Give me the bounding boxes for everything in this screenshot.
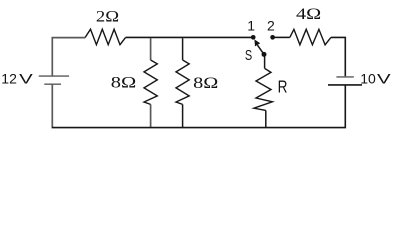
svg-text:V: V	[377, 71, 392, 87]
svg-text:4Ω: 4Ω	[296, 6, 321, 23]
svg-text:2: 2	[267, 18, 275, 34]
svg-text:12: 12	[1, 71, 17, 87]
svg-text:1: 1	[247, 18, 255, 34]
svg-text:V: V	[19, 71, 34, 87]
svg-text:8Ω: 8Ω	[193, 75, 218, 92]
svg-text:8Ω: 8Ω	[111, 75, 137, 92]
svg-text:R: R	[278, 77, 288, 97]
svg-text:10: 10	[360, 71, 376, 87]
svg-text:2Ω: 2Ω	[96, 8, 119, 25]
svg-text:S: S	[245, 47, 252, 64]
